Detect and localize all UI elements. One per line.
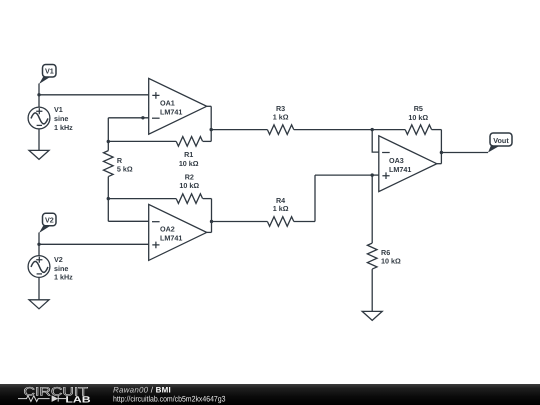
wire flag V2 to node (38, 233, 40, 245)
wire OA1 output stub (207, 105, 212, 107)
junction R1 left (107, 140, 110, 143)
wire V1 node to OA1 + input (39, 94, 149, 96)
wire R6 top (371, 175, 373, 243)
wire OA2 inverting input (108, 220, 148, 222)
label R2 10 kOhm (179, 173, 199, 190)
label R4 1 kOhm (273, 196, 289, 213)
svg-text:OA3: OA3 (389, 156, 404, 165)
resistor R4 (267, 217, 293, 227)
svg-text:5 kΩ: 5 kΩ (117, 165, 133, 174)
resistor R2 (176, 194, 202, 204)
junction OA3 non-inverting node (371, 173, 374, 176)
svg-text:10 kΩ: 10 kΩ (179, 159, 199, 168)
svg-text:LM741: LM741 (160, 108, 182, 117)
label R3 1 kOhm (273, 104, 289, 121)
svg-text:10 kΩ: 10 kΩ (381, 257, 401, 266)
wire left node vertical upper (107, 118, 109, 151)
svg-text:V2: V2 (45, 215, 54, 224)
resistor R (104, 151, 114, 177)
svg-text:10 kΩ: 10 kΩ (179, 181, 199, 190)
label R1 10 kOhm (179, 150, 199, 168)
junction R2 left (107, 197, 110, 200)
label R5 10 kOhm (408, 104, 428, 122)
logo diode glyph (52, 395, 59, 402)
resistor R5 (405, 125, 431, 135)
footer credit line (113, 386, 171, 395)
wire to OA3 non-inverting input (372, 174, 379, 176)
wire OA1 output to R3 (211, 129, 267, 131)
svg-text:V1: V1 (54, 105, 63, 114)
svg-text:1 kHz: 1 kHz (54, 123, 73, 132)
svg-text:LM741: LM741 (160, 234, 182, 243)
svg-text:1 kΩ: 1 kΩ (273, 204, 289, 213)
footer url line (113, 394, 226, 403)
wire R2 left (108, 198, 176, 200)
svg-text:LM741: LM741 (389, 165, 411, 174)
label V2 sine 1 kHz (54, 255, 73, 282)
wire OA2 output stub (207, 231, 212, 233)
wire V1 node to source (38, 95, 40, 107)
svg-text:1 kHz: 1 kHz (54, 273, 73, 282)
svg-text:OA1: OA1 (160, 98, 175, 107)
resistor R1 (176, 137, 202, 147)
ground below R6 (362, 311, 382, 320)
wire R5 right (432, 129, 442, 131)
wire OA3 output stub (437, 163, 442, 165)
wire R2 right (203, 198, 212, 200)
junction OA1 output (210, 128, 213, 131)
wire R3 node to R5 (372, 129, 405, 131)
wire OA3 output vertical (440, 130, 442, 164)
node junction V1 (37, 93, 40, 96)
resistor R3 (267, 125, 293, 135)
svg-text:http://circuitlab.com/cb5m2kx4: http://circuitlab.com/cb5m2kx4647g3 (113, 394, 226, 403)
wire V2 node to source (38, 244, 40, 255)
wire OA3 output to Vout (441, 152, 488, 154)
logo schematic glyph (18, 396, 66, 402)
svg-text:sine: sine (54, 264, 68, 273)
svg-text:R5: R5 (414, 104, 423, 113)
wire V2 node to OA2 + input (39, 243, 149, 245)
op-amp OA1 (149, 78, 207, 134)
wire V1 source to ground (38, 129, 40, 151)
wire R3 to OA3 node (294, 129, 372, 131)
resistor R6 (367, 243, 377, 269)
wire R1 right (203, 140, 211, 142)
voltage source V1 (28, 107, 50, 129)
wire OA1 output vertical (210, 106, 212, 141)
footer bar (0, 384, 540, 405)
junction OA2 output (210, 220, 213, 223)
svg-text:V1: V1 (45, 67, 54, 76)
wire OA2 output vertical (211, 199, 213, 233)
junction OA3 inverting node (371, 128, 374, 131)
svg-text:R6: R6 (381, 248, 390, 257)
label R 5 kOhm (117, 156, 133, 173)
svg-text:V2: V2 (54, 255, 63, 264)
label V1 sine 1 kHz (54, 105, 73, 132)
wire R1 left (108, 140, 176, 142)
node flag V2 (39, 213, 56, 233)
svg-text:Rawan00 / BMI: Rawan00 / BMI (113, 386, 171, 395)
wire to OA3 plus node (315, 174, 372, 176)
wire V2 source to ground (38, 277, 40, 299)
svg-text:sine: sine (54, 114, 68, 123)
wire R4 right (294, 221, 315, 223)
junction OA3 output (440, 151, 443, 154)
node junction V2 (37, 243, 40, 246)
voltage source V2 (28, 256, 50, 278)
op-amp OA2 (149, 204, 207, 260)
node flag V1 (39, 65, 56, 85)
ground below V2 (29, 300, 49, 309)
logo LAB text (65, 395, 91, 405)
wire OA1 inverting input (108, 117, 148, 119)
op-amp OA3 (379, 136, 437, 192)
ground below V1 (29, 150, 49, 159)
svg-text:OA2: OA2 (160, 225, 175, 234)
junction at OA1 inverting pin (141, 116, 144, 119)
label R6 10 kOhm (381, 248, 401, 266)
wire flag V1 to node (38, 84, 40, 95)
svg-text:10 kΩ: 10 kΩ (408, 113, 428, 122)
wire R6 bottom (371, 269, 373, 311)
wire R4 up (314, 175, 316, 221)
node flag Vout (488, 133, 512, 153)
wire down to OA3 inverting input (372, 130, 379, 153)
logo CIRCUIT text (24, 385, 89, 399)
wire left node vertical lower (107, 177, 109, 222)
wire OA2 output to R4 (212, 221, 268, 223)
svg-text:R1: R1 (184, 150, 193, 159)
svg-text:1 kΩ: 1 kΩ (273, 113, 289, 122)
svg-text:Vout: Vout (493, 136, 509, 145)
svg-text:LAB: LAB (65, 395, 91, 405)
